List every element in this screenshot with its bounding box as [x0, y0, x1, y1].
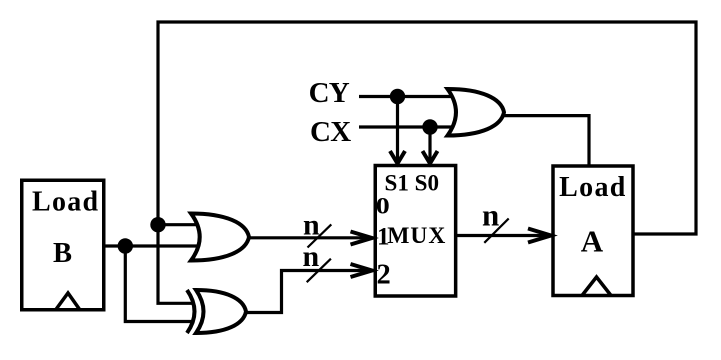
or-gate OR1 (middle, inputs B and feedback) — [191, 214, 249, 261]
wire: CX branch down to MUX S0 — [428, 127, 431, 163]
arrowhead into MUX S1 — [390, 151, 405, 164]
bus slash on MUX output — [484, 219, 508, 243]
bus slash on XOR output — [307, 259, 331, 283]
wire: CY input line to top OR gate — [359, 95, 462, 98]
svg-text:Load: Load — [559, 172, 626, 203]
wire: feedback from A output around top to XOR top input — [158, 22, 696, 303]
svg-text:S1 S0: S1 S0 — [385, 170, 440, 195]
wire: OR gate top input from feedback line — [158, 223, 205, 226]
xor-gate X1 body — [196, 290, 246, 333]
wire: branch from B output down to XOR bottom input — [125, 246, 194, 322]
arrowhead into MUX input 2 — [351, 264, 373, 277]
mux M1 box — [375, 166, 455, 297]
svg-text:CX: CX — [310, 116, 351, 148]
wire: CX input line to top OR gate — [359, 125, 462, 128]
register B box — [22, 180, 104, 310]
junction dot on CX line — [422, 119, 437, 134]
wire: register B output to OR gate bottom input — [104, 244, 205, 247]
svg-text:CY: CY — [309, 77, 350, 109]
wire: CY branch down to MUX S1 — [396, 97, 399, 163]
svg-text:0: 0 — [376, 194, 390, 219]
junction dot on CY line — [390, 89, 405, 104]
svg-text:n: n — [303, 240, 320, 273]
svg-text:MUX: MUX — [387, 223, 446, 249]
svg-text:2: 2 — [377, 259, 391, 290]
register A box — [553, 166, 633, 296]
svg-text:n: n — [482, 198, 499, 233]
svg-text:B: B — [53, 238, 72, 269]
junction dot on B output — [118, 238, 133, 253]
svg-text:A: A — [581, 224, 604, 259]
arrowhead into register A — [528, 229, 551, 243]
wire: OR gate output to MUX input 1 — [247, 236, 371, 239]
register A clock triangle — [582, 277, 611, 296]
wire: top OR gate output to Load A enable — [503, 116, 589, 168]
register B clock triangle — [56, 293, 81, 310]
wire: MUX output to register A — [456, 234, 550, 237]
wire: XOR gate output to MUX input 2 — [244, 271, 371, 313]
xor-gate X1 input arc — [187, 290, 195, 333]
arrowhead into MUX input 1 — [351, 232, 373, 245]
arrowhead into MUX S0 — [423, 151, 438, 164]
or-gate OR2 (top, inputs CY CX) — [448, 89, 505, 136]
svg-text:Load: Load — [32, 186, 99, 217]
junction dot on feedback line at OR input — [150, 217, 165, 232]
bus slash on OR output — [308, 224, 332, 247]
